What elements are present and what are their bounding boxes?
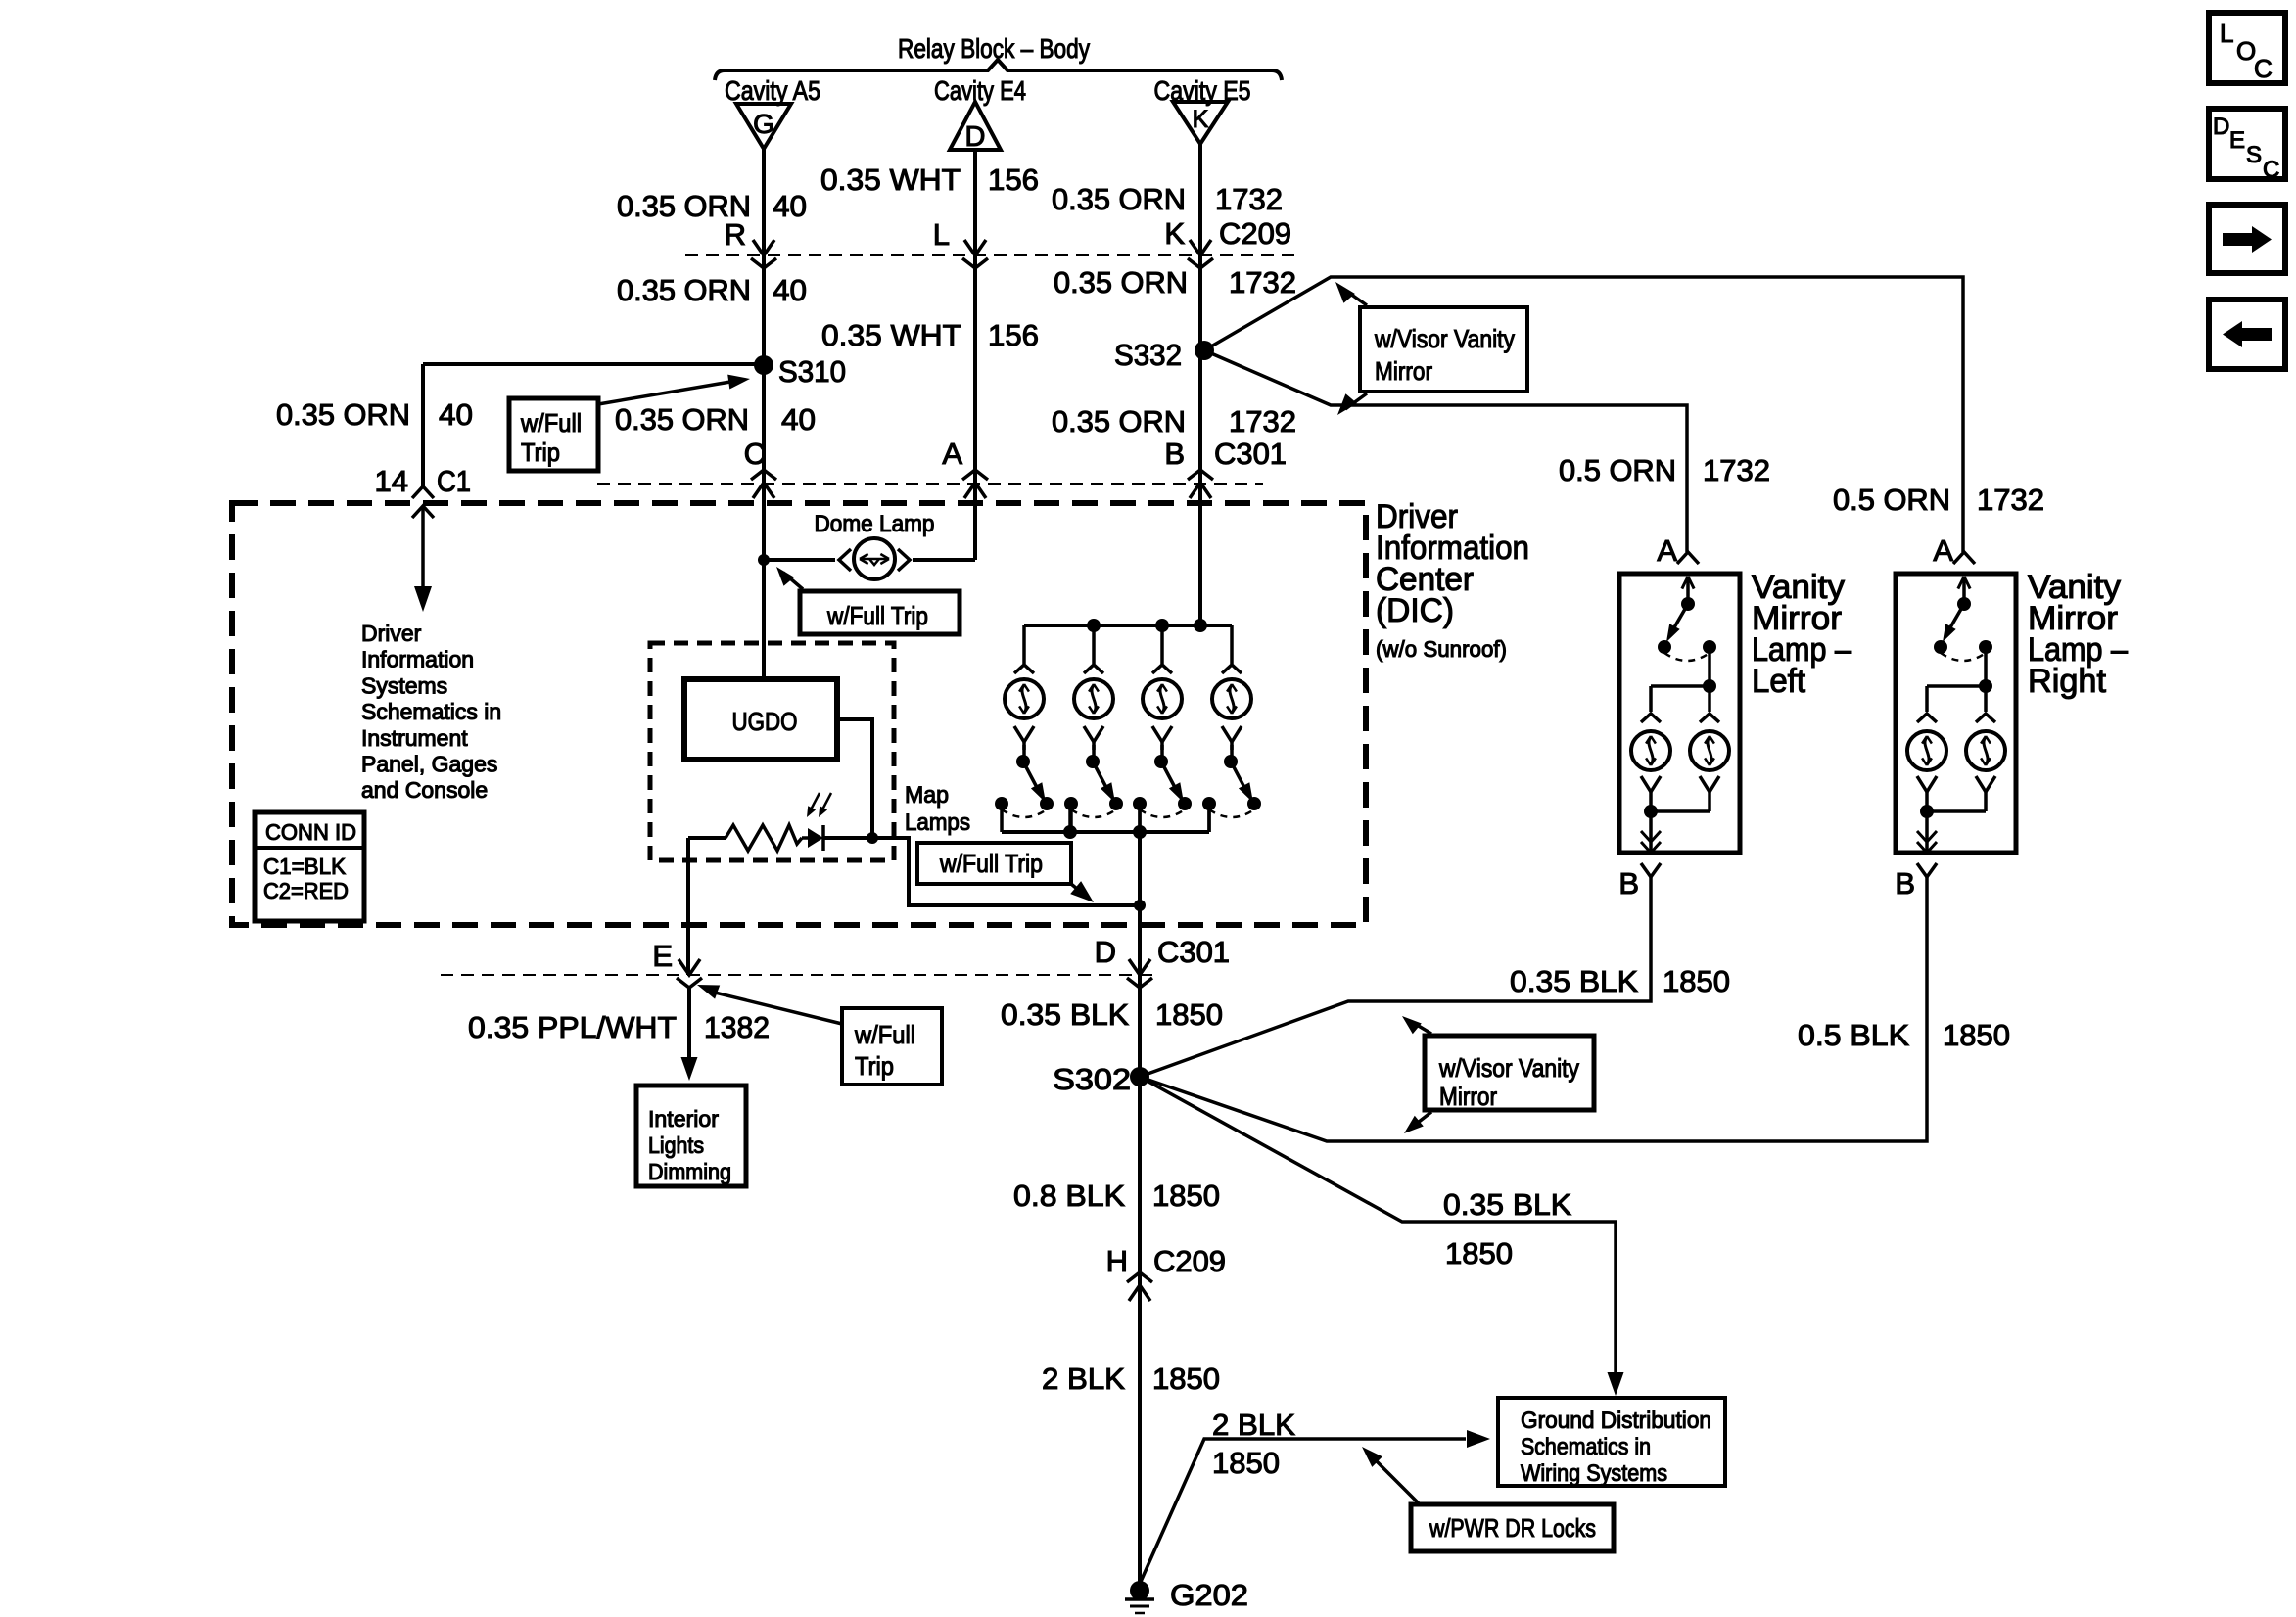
svg-text:0.35 BLK: 0.35 BLK — [1510, 964, 1638, 998]
svg-text:156: 156 — [988, 162, 1039, 197]
svg-text:1732: 1732 — [1977, 483, 2044, 517]
svg-text:H: H — [1106, 1244, 1128, 1278]
svg-text:Mirror: Mirror — [1439, 1082, 1497, 1111]
svg-text:Dimming: Dimming — [648, 1159, 731, 1184]
svg-text:Lights: Lights — [648, 1132, 704, 1158]
svg-text:0.35 WHT: 0.35 WHT — [821, 318, 961, 352]
svg-text:Cavity A5: Cavity A5 — [725, 75, 820, 106]
svg-text:L: L — [933, 217, 950, 252]
svg-text:0.35 ORN: 0.35 ORN — [1052, 182, 1186, 216]
svg-text:and Console: and Console — [361, 777, 488, 803]
svg-text:0.35 ORN: 0.35 ORN — [615, 402, 749, 437]
svg-text:Mirror: Mirror — [1375, 356, 1432, 386]
svg-text:E: E — [2229, 127, 2245, 154]
svg-text:w/Visor Vanity: w/Visor Vanity — [1374, 324, 1515, 353]
svg-text:0.35 WHT: 0.35 WHT — [820, 162, 961, 197]
svg-text:1850: 1850 — [1445, 1236, 1513, 1270]
svg-text:0.35 ORN: 0.35 ORN — [276, 397, 410, 432]
svg-text:w/Full Trip: w/Full Trip — [939, 849, 1043, 878]
svg-text:A: A — [942, 437, 962, 471]
svg-text:1732: 1732 — [1229, 404, 1296, 439]
svg-text:w/PWR DR Locks: w/PWR DR Locks — [1429, 1513, 1596, 1543]
svg-text:Map: Map — [905, 782, 949, 808]
svg-text:Schematics in: Schematics in — [361, 699, 501, 724]
svg-text:G: G — [753, 109, 774, 139]
svg-text:A: A — [1933, 533, 1953, 568]
svg-text:R: R — [725, 217, 746, 252]
svg-text:C: C — [2254, 54, 2273, 83]
svg-text:40: 40 — [773, 273, 807, 307]
svg-text:B: B — [1895, 866, 1915, 901]
svg-text:1850: 1850 — [1152, 1362, 1220, 1396]
svg-text:Trip: Trip — [855, 1051, 894, 1081]
svg-text:40: 40 — [439, 397, 473, 432]
svg-text:Ground Distribution: Ground Distribution — [1521, 1408, 1711, 1434]
svg-text:1732: 1732 — [1229, 265, 1296, 300]
svg-text:Interior: Interior — [648, 1106, 719, 1132]
svg-text:Lamps: Lamps — [905, 809, 970, 836]
svg-text:Instrument: Instrument — [361, 725, 468, 751]
svg-text:2 BLK: 2 BLK — [1212, 1408, 1295, 1442]
svg-text:Left: Left — [1752, 663, 1806, 700]
svg-text:C301: C301 — [1214, 437, 1287, 471]
svg-text:C1=BLK: C1=BLK — [263, 854, 347, 879]
svg-text:D: D — [965, 121, 986, 153]
svg-text:0.5 ORN: 0.5 ORN — [1833, 483, 1950, 517]
svg-text:Panel, Gages: Panel, Gages — [361, 752, 497, 777]
svg-text:1850: 1850 — [1152, 1178, 1220, 1213]
svg-text:0.8 BLK: 0.8 BLK — [1013, 1178, 1125, 1213]
svg-text:C209: C209 — [1219, 216, 1291, 251]
svg-text:Right: Right — [2028, 663, 2107, 700]
svg-text:0.35 ORN: 0.35 ORN — [1052, 404, 1186, 439]
svg-text:1850: 1850 — [1943, 1018, 2010, 1052]
svg-text:40: 40 — [773, 189, 807, 223]
svg-text:D: D — [1095, 935, 1116, 969]
svg-text:0.35 BLK: 0.35 BLK — [1443, 1187, 1571, 1222]
svg-text:Information: Information — [361, 647, 474, 672]
svg-text:S332: S332 — [1114, 338, 1182, 372]
svg-text:40: 40 — [781, 402, 816, 437]
svg-text:C2=RED: C2=RED — [263, 878, 349, 903]
svg-text:S: S — [2246, 142, 2262, 168]
svg-text:0.5 BLK: 0.5 BLK — [1798, 1018, 1909, 1052]
svg-text:0.5 ORN: 0.5 ORN — [1559, 453, 1676, 487]
svg-text:C209: C209 — [1153, 1244, 1226, 1278]
svg-text:1850: 1850 — [1212, 1446, 1280, 1480]
svg-text:S310: S310 — [778, 354, 846, 389]
svg-text:0.35 ORN: 0.35 ORN — [617, 273, 751, 307]
svg-text:w/Full: w/Full — [520, 408, 582, 438]
svg-text:1732: 1732 — [1703, 453, 1770, 487]
svg-text:G202: G202 — [1170, 1578, 1248, 1612]
svg-text:w/Visor Vanity: w/Visor Vanity — [1438, 1053, 1579, 1083]
svg-text:C: C — [744, 437, 766, 471]
svg-text:14: 14 — [375, 464, 408, 498]
svg-text:w/Full Trip: w/Full Trip — [826, 601, 928, 630]
svg-text:CONN ID: CONN ID — [265, 819, 356, 845]
svg-text:D: D — [2213, 114, 2229, 140]
svg-text:w/Full: w/Full — [854, 1020, 915, 1049]
svg-text:1850: 1850 — [1663, 964, 1730, 998]
svg-text:C301: C301 — [1157, 935, 1230, 969]
svg-text:Wiring Systems: Wiring Systems — [1521, 1460, 1667, 1487]
svg-text:C1: C1 — [437, 464, 471, 498]
svg-text:K: K — [1193, 106, 1209, 133]
svg-text:Cavity E4: Cavity E4 — [934, 75, 1026, 106]
svg-text:Relay Block – Body: Relay Block – Body — [898, 33, 1090, 64]
svg-text:Systems: Systems — [361, 672, 447, 698]
svg-text:B: B — [1164, 437, 1185, 471]
svg-text:1850: 1850 — [1155, 997, 1223, 1032]
svg-text:E: E — [652, 939, 673, 973]
svg-text:L: L — [2220, 19, 2233, 48]
svg-text:UGDO: UGDO — [732, 707, 798, 736]
svg-text:(w/o Sunroof): (w/o Sunroof) — [1376, 636, 1507, 662]
svg-text:2 BLK: 2 BLK — [1042, 1362, 1125, 1396]
svg-text:0.35 BLK: 0.35 BLK — [1001, 997, 1129, 1032]
svg-text:A: A — [1657, 533, 1677, 568]
svg-text:C: C — [2263, 157, 2279, 183]
svg-text:B: B — [1618, 866, 1639, 901]
svg-text:Schematics in: Schematics in — [1521, 1434, 1651, 1460]
svg-text:Trip: Trip — [521, 438, 560, 467]
svg-text:Driver: Driver — [361, 621, 422, 646]
svg-text:0.35 ORN: 0.35 ORN — [1054, 265, 1188, 300]
svg-text:(DIC): (DIC) — [1376, 592, 1454, 629]
svg-text:Dome Lamp: Dome Lamp — [815, 511, 935, 537]
svg-text:1382: 1382 — [704, 1010, 770, 1044]
svg-text:1732: 1732 — [1215, 182, 1283, 216]
svg-text:S302: S302 — [1053, 1062, 1131, 1096]
svg-text:0.35 PPL/WHT: 0.35 PPL/WHT — [468, 1010, 677, 1044]
svg-text:K: K — [1164, 216, 1185, 251]
svg-text:156: 156 — [988, 318, 1039, 352]
